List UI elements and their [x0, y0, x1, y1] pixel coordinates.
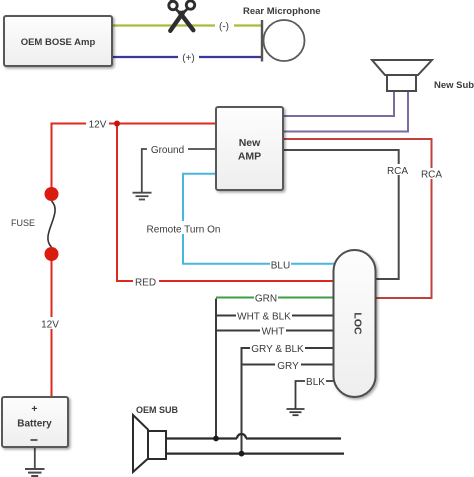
svg-text:(+): (+): [182, 53, 195, 64]
svg-text:AMP: AMP: [238, 151, 261, 163]
svg-text:RCA: RCA: [387, 166, 408, 177]
svg-text:Battery: Battery: [17, 419, 52, 430]
svg-text:GRY & BLK: GRY & BLK: [251, 344, 304, 355]
svg-text:12V: 12V: [41, 320, 59, 331]
svg-text:+: +: [31, 403, 37, 415]
svg-text:BLK: BLK: [306, 377, 325, 388]
svg-text:(-): (-): [219, 22, 229, 33]
svg-text:OEM BOSE Amp: OEM BOSE Amp: [21, 37, 96, 48]
svg-text:OEM SUB: OEM SUB: [136, 405, 179, 415]
svg-text:WHT: WHT: [262, 327, 285, 338]
svg-text:New Sub: New Sub: [434, 80, 474, 91]
svg-text:WHT & BLK: WHT & BLK: [237, 312, 291, 323]
svg-text:12V: 12V: [89, 120, 107, 131]
svg-text:Rear Microphone: Rear Microphone: [243, 6, 321, 17]
svg-text:GRY: GRY: [277, 361, 299, 372]
svg-text:LOC: LOC: [352, 312, 364, 335]
svg-text:BLU: BLU: [271, 261, 290, 272]
svg-text:Remote Turn On: Remote Turn On: [147, 225, 221, 236]
svg-text:FUSE: FUSE: [11, 218, 35, 228]
svg-text:New: New: [239, 137, 261, 149]
svg-text:RCA: RCA: [421, 170, 442, 181]
svg-text:Ground: Ground: [151, 145, 184, 156]
svg-text:GRN: GRN: [255, 294, 277, 305]
svg-text:RED: RED: [135, 278, 156, 289]
